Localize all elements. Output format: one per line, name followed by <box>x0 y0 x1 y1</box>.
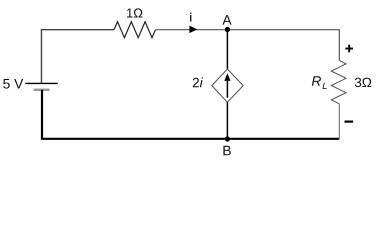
wire top-left segment (from left corner to resistor R1) <box>41 30 114 84</box>
wire left-lower segment (battery to bottom-left corner) <box>41 90 43 139</box>
wire node A to dependent source <box>226 30 228 69</box>
node A <box>225 27 230 32</box>
wire top segment (resistor R1 to node A to top-right corner) <box>156 30 340 61</box>
value label 1Ω <box>127 8 142 17</box>
dependent current source 2i (diamond with up arrow) <box>212 69 243 102</box>
wire dependent source to node B <box>226 102 228 139</box>
polarity + <box>345 45 353 53</box>
node B <box>225 136 230 141</box>
voltage source V1 (battery plates) <box>25 83 58 89</box>
node label A <box>222 15 231 24</box>
node label B <box>223 146 230 155</box>
label RL <box>312 76 321 85</box>
wire right-lower segment (resistor RL to bottom-right corner) <box>338 104 340 139</box>
polarity − <box>345 120 354 122</box>
wire right-upper segment (top-right corner handled above); resistor RL zigzag <box>331 60 346 104</box>
value label 3Ω <box>355 78 372 88</box>
value label 2i <box>193 77 203 87</box>
resistor R1 zigzag <box>114 22 156 38</box>
value label 5 V <box>3 79 23 89</box>
current arrow i <box>189 26 197 33</box>
current label i <box>190 13 191 22</box>
wire bottom rail (through node B) <box>41 138 339 140</box>
